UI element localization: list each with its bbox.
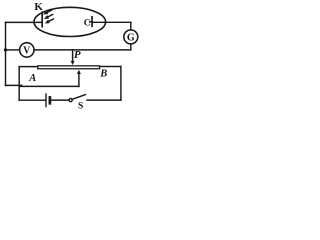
arrowhead up tap <box>77 70 81 74</box>
battery short plate <box>49 97 52 103</box>
svg-text:V: V <box>23 45 31 56</box>
potentiometer bar AB <box>38 66 100 69</box>
battery long plate <box>45 94 47 107</box>
anode C tick <box>90 21 92 23</box>
anode lead wire <box>92 21 131 23</box>
wire right rail upper <box>130 22 132 30</box>
wire lower right vertical <box>120 67 122 101</box>
arrowhead down slider P <box>71 61 75 65</box>
wire A stub <box>19 66 37 68</box>
cathode K plate <box>41 12 43 27</box>
wire bottom left to battery <box>19 99 45 101</box>
voltmeter V circle <box>20 43 34 57</box>
wire inner left vertical <box>18 67 20 101</box>
junction node left rail / V lead <box>4 48 7 51</box>
wire bottom-left horizontal to slider tap <box>6 84 22 86</box>
slider P stem <box>72 50 74 62</box>
wire G to middle rail <box>130 44 132 50</box>
light ray arrow 1 <box>42 8 53 16</box>
phototube envelope <box>34 7 106 36</box>
switch S pivot <box>69 99 72 102</box>
svg-text:A: A <box>28 73 36 84</box>
switch S lever <box>72 95 85 100</box>
light ray arrow 3 <box>44 17 55 25</box>
wire B stub <box>100 66 121 68</box>
anode C plate <box>91 17 93 27</box>
wire battery to switch <box>51 99 69 101</box>
svg-text:P: P <box>74 49 81 61</box>
galvanometer G circle <box>124 30 138 44</box>
svg-text:G: G <box>127 32 135 43</box>
wire middle rail right of V <box>34 49 131 51</box>
wire left outer rail <box>5 22 7 85</box>
svg-text:K: K <box>34 1 43 13</box>
wire tap vertical (bottom slider) <box>78 73 80 86</box>
wire middle rail left of V <box>6 49 20 51</box>
svg-text:B: B <box>99 68 107 79</box>
wire top rail K lead <box>6 21 43 23</box>
wire tap horizontal <box>19 85 79 87</box>
svg-text:C: C <box>84 18 91 28</box>
wire switch to right rail <box>87 99 121 101</box>
light ray arrow 2 <box>43 13 54 21</box>
svg-text:S: S <box>78 102 83 112</box>
